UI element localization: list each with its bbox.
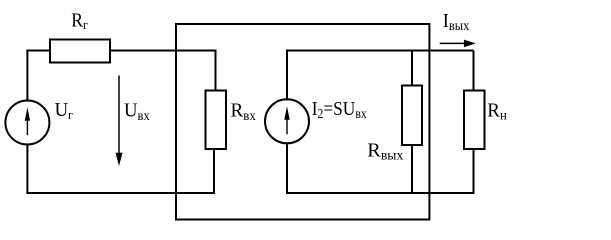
wire: dependent source bottom lead (x=287) [286, 143, 288, 194]
wire: Rвх bottom lead (x=215) [213, 149, 215, 194]
wire: left vertical, wire to Uг circle top (x=27.4) [26, 50, 28, 102]
two-port network box [176, 24, 429, 220]
wire: output bottom rail (y=193) [286, 192, 475, 194]
wire: input bottom rail (y=193) [26, 192, 215, 194]
resistor Rвых [402, 86, 422, 146]
dependent current source I2=SUвх [265, 99, 309, 143]
wire: Rн bottom lead (x=473.5) [473, 149, 475, 194]
resistor Rн [464, 91, 485, 150]
wire: Rвых bottom lead (x=412) [411, 145, 413, 194]
wire: down to Rвх top (x=215.5) [215, 51, 217, 91]
arrow Iвых (output current arrow) [440, 40, 476, 48]
arrow Uвх (input voltage arrow) [116, 76, 123, 167]
wire: Rг right to input corner (y=50.5) [110, 50, 217, 52]
wire: Rвых top lead (x=412) [411, 51, 413, 87]
source Uг (independent generator) [5, 101, 49, 145]
wire: output top rail (y=50.5) [286, 50, 474, 52]
resistor Rг [50, 40, 110, 63]
wire: Uг circle bottom to bottom rail (x=27.4) [26, 144, 28, 194]
wire: Rн top lead (x=473.5) [473, 51, 475, 92]
wire: Uг top to Rг left (y=50.5) [26, 50, 50, 52]
wire: dependent source top lead (x=287) [286, 50, 288, 101]
resistor Rвх [206, 91, 227, 150]
